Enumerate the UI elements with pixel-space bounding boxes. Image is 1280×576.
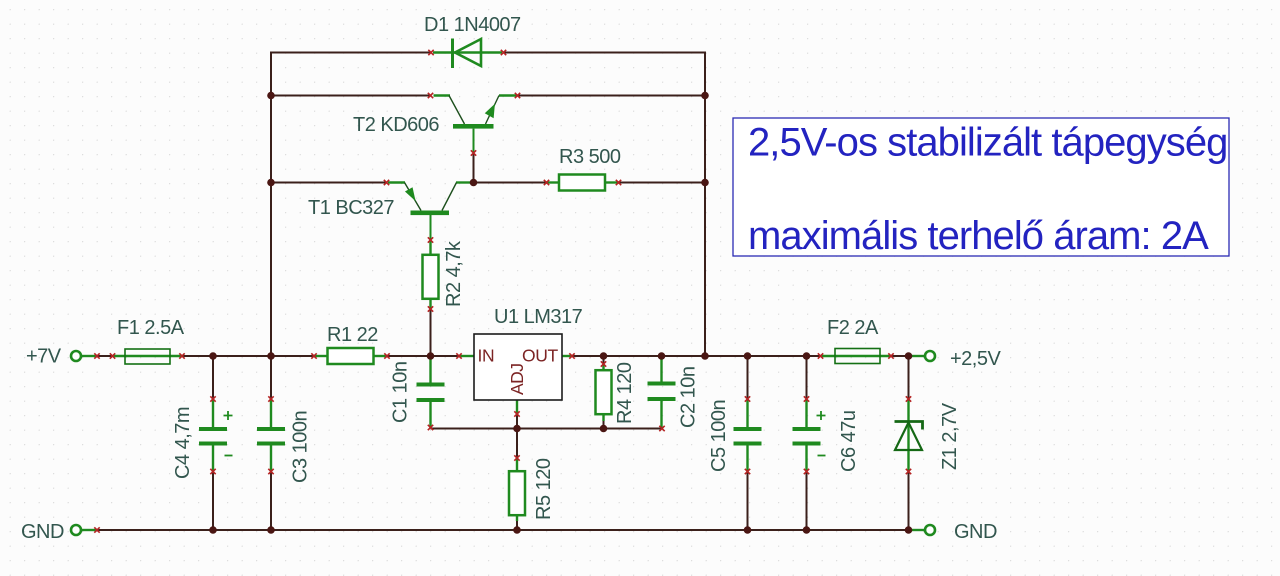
junction [470, 179, 478, 187]
pin-connection x [501, 50, 506, 55]
svg-text:F2 2A: F2 2A [827, 317, 879, 339]
wire C5 bottom lead [747, 472, 749, 531]
wire T2 base down [473, 153, 475, 183]
pin-connection x [906, 469, 911, 474]
wire U1 OUT rail [572, 355, 821, 357]
svg-text:+7V: +7V [26, 346, 62, 368]
pin-connection x [268, 469, 273, 474]
svg-text:GND: GND [21, 521, 64, 543]
junction [803, 526, 811, 534]
pin-connection x [514, 411, 519, 416]
capacitor C6 47u electrolytic [793, 399, 826, 472]
pin-connection x [906, 396, 911, 401]
junction [600, 425, 608, 433]
wire R3 right [619, 182, 705, 184]
pin-connection x [428, 237, 433, 242]
pin-connection x [616, 180, 621, 185]
pin-connection x [659, 426, 664, 431]
pin-connection x [745, 396, 750, 401]
wire R3 left [474, 182, 547, 184]
wire T2 emitter rail [518, 95, 705, 97]
svg-text:C1 10n: C1 10n [390, 362, 412, 424]
wire R4 bottom [603, 421, 605, 429]
svg-text:GND: GND [954, 521, 997, 543]
wire Z1 bottom lead [908, 472, 910, 531]
junction [513, 526, 521, 534]
junction [658, 352, 666, 360]
pin-connection x [745, 469, 750, 474]
pin-connection x [428, 425, 433, 430]
pin-connection x [94, 527, 99, 532]
svg-text:C4 4,7m: C4 4,7m [172, 407, 194, 479]
resistor R4 120 [596, 364, 612, 421]
svg-text:ADJ: ADJ [507, 363, 527, 395]
wire F2 to output [891, 355, 920, 357]
fuse F1 2.5A [113, 349, 182, 364]
svg-text:2,5V-os stabilizált tápegység: 2,5V-os stabilizált tápegység [748, 121, 1227, 165]
wire net D1 top rail right [503, 52, 706, 54]
wire net D1 top rail left [271, 52, 431, 54]
capacitor C5 100n [734, 399, 762, 472]
junction [701, 179, 709, 187]
pin-connection x [544, 180, 549, 185]
junction [905, 352, 913, 360]
port GND left pin [71, 525, 97, 535]
svg-text:R1 22: R1 22 [327, 324, 378, 346]
junction [513, 425, 521, 433]
junction [803, 352, 811, 360]
junction [600, 352, 608, 360]
pin-connection x [311, 353, 316, 358]
wire C5 top lead [747, 356, 749, 399]
fuse F2 2A [821, 349, 891, 364]
svg-text:U1 LM317: U1 LM317 [494, 306, 583, 328]
svg-text:+2,5V: +2,5V [950, 348, 1001, 370]
wire ADJ net [431, 428, 663, 430]
port +2,5V output pin [912, 351, 936, 361]
junction [209, 526, 217, 534]
svg-text:C6 47u: C6 47u [838, 411, 860, 473]
junction [209, 352, 217, 360]
transistor T2 KD606 [434, 96, 518, 154]
svg-text:R2 4,7k: R2 4,7k [443, 240, 465, 307]
pin-connection x [94, 353, 99, 358]
resistor R1 22 [314, 348, 387, 364]
junction [744, 526, 752, 534]
pin-connection x [515, 93, 520, 98]
wire T2 collector rail [271, 95, 430, 97]
junction [267, 526, 275, 534]
wire ADJ pin down [516, 414, 518, 429]
resistor R5 120 [509, 458, 525, 521]
wire C4 top lead [212, 356, 214, 399]
pin-connection x [804, 469, 809, 474]
junction [427, 352, 435, 360]
IC U1 LM317 [459, 334, 572, 414]
pin-connection x [888, 353, 893, 358]
title box frame [733, 118, 1229, 256]
svg-text:IN: IN [478, 346, 495, 366]
wire C4 bottom lead [212, 472, 214, 531]
svg-text:OUT: OUT [522, 346, 558, 366]
junction [701, 352, 709, 360]
pin-connection x [268, 396, 273, 401]
port GND right pin [912, 525, 936, 535]
capacitor C3 100n [257, 399, 285, 472]
junction [701, 92, 709, 100]
pin-connection x [428, 93, 433, 98]
pin-connection x [428, 50, 433, 55]
pin-connection x [804, 396, 809, 401]
wire C6 top lead [806, 356, 808, 399]
pin-connection x [514, 455, 519, 460]
pin-connection x [569, 353, 574, 358]
wire T1 emitter rail [271, 182, 386, 184]
pin-connection x [428, 306, 433, 311]
svg-text:F1 2.5A: F1 2.5A [117, 317, 185, 339]
wire R5 to GND [516, 516, 518, 531]
wire C6 bottom lead [806, 472, 808, 531]
pin-connection x [210, 469, 215, 474]
wire R2 bottom to rail [430, 309, 432, 356]
svg-text:C2 10n: C2 10n [678, 367, 700, 429]
capacitor C2 10n [648, 356, 676, 429]
pin-connection x [384, 180, 389, 185]
wire right vertical bus [704, 52, 706, 357]
zener diode Z1 2,7V [895, 399, 923, 472]
svg-text:C3 100n: C3 100n [290, 411, 312, 483]
pin-connection x [110, 353, 115, 358]
junction [905, 526, 913, 534]
capacitor C4 4,7m electrolytic [199, 399, 233, 472]
wire left vertical bus [270, 52, 272, 357]
svg-text:C5 100n: C5 100n [708, 400, 730, 472]
svg-text:maximális terhelő áram: 2A: maximális terhelő áram: 2A [748, 214, 1209, 258]
transistor T1 BC327 [388, 183, 472, 241]
junction [267, 179, 275, 187]
wire GND rail [97, 529, 920, 531]
wire F1 to R1 [182, 355, 314, 357]
diode D1 1N4007 [433, 39, 502, 69]
wire Z1 top lead [908, 356, 910, 399]
wire R1 to U1 IN [387, 355, 459, 357]
pin-connection x [179, 353, 184, 358]
pin-connection x [471, 150, 476, 155]
wire +7V pin to fuse [97, 355, 113, 357]
wire C3 top lead [270, 356, 272, 399]
svg-text:R4 120: R4 120 [614, 362, 636, 424]
svg-text:T1 BC327: T1 BC327 [308, 197, 394, 219]
svg-text:Z1 2,7V: Z1 2,7V [939, 402, 961, 470]
pin-connection x [601, 361, 606, 366]
resistor R2 4,7k [423, 240, 439, 309]
pin-connection x [456, 353, 461, 358]
capacitor C1 10n [417, 356, 445, 428]
port +7V input pin [71, 351, 97, 361]
junction [267, 92, 275, 100]
junction [744, 352, 752, 360]
wire C3 bottom lead [270, 472, 272, 531]
pin-connection x [818, 353, 823, 358]
junction [267, 352, 275, 360]
wire ADJ to R5 [516, 429, 518, 459]
pin-connection x [384, 353, 389, 358]
wire R4 top [603, 356, 605, 364]
svg-text:R5 120: R5 120 [533, 458, 555, 520]
pin-connection x [210, 396, 215, 401]
svg-text:T2 KD606: T2 KD606 [353, 114, 439, 136]
resistor R3 500 [546, 175, 619, 191]
svg-text:D1 1N4007: D1 1N4007 [424, 14, 521, 36]
svg-text:R3 500: R3 500 [559, 146, 621, 168]
